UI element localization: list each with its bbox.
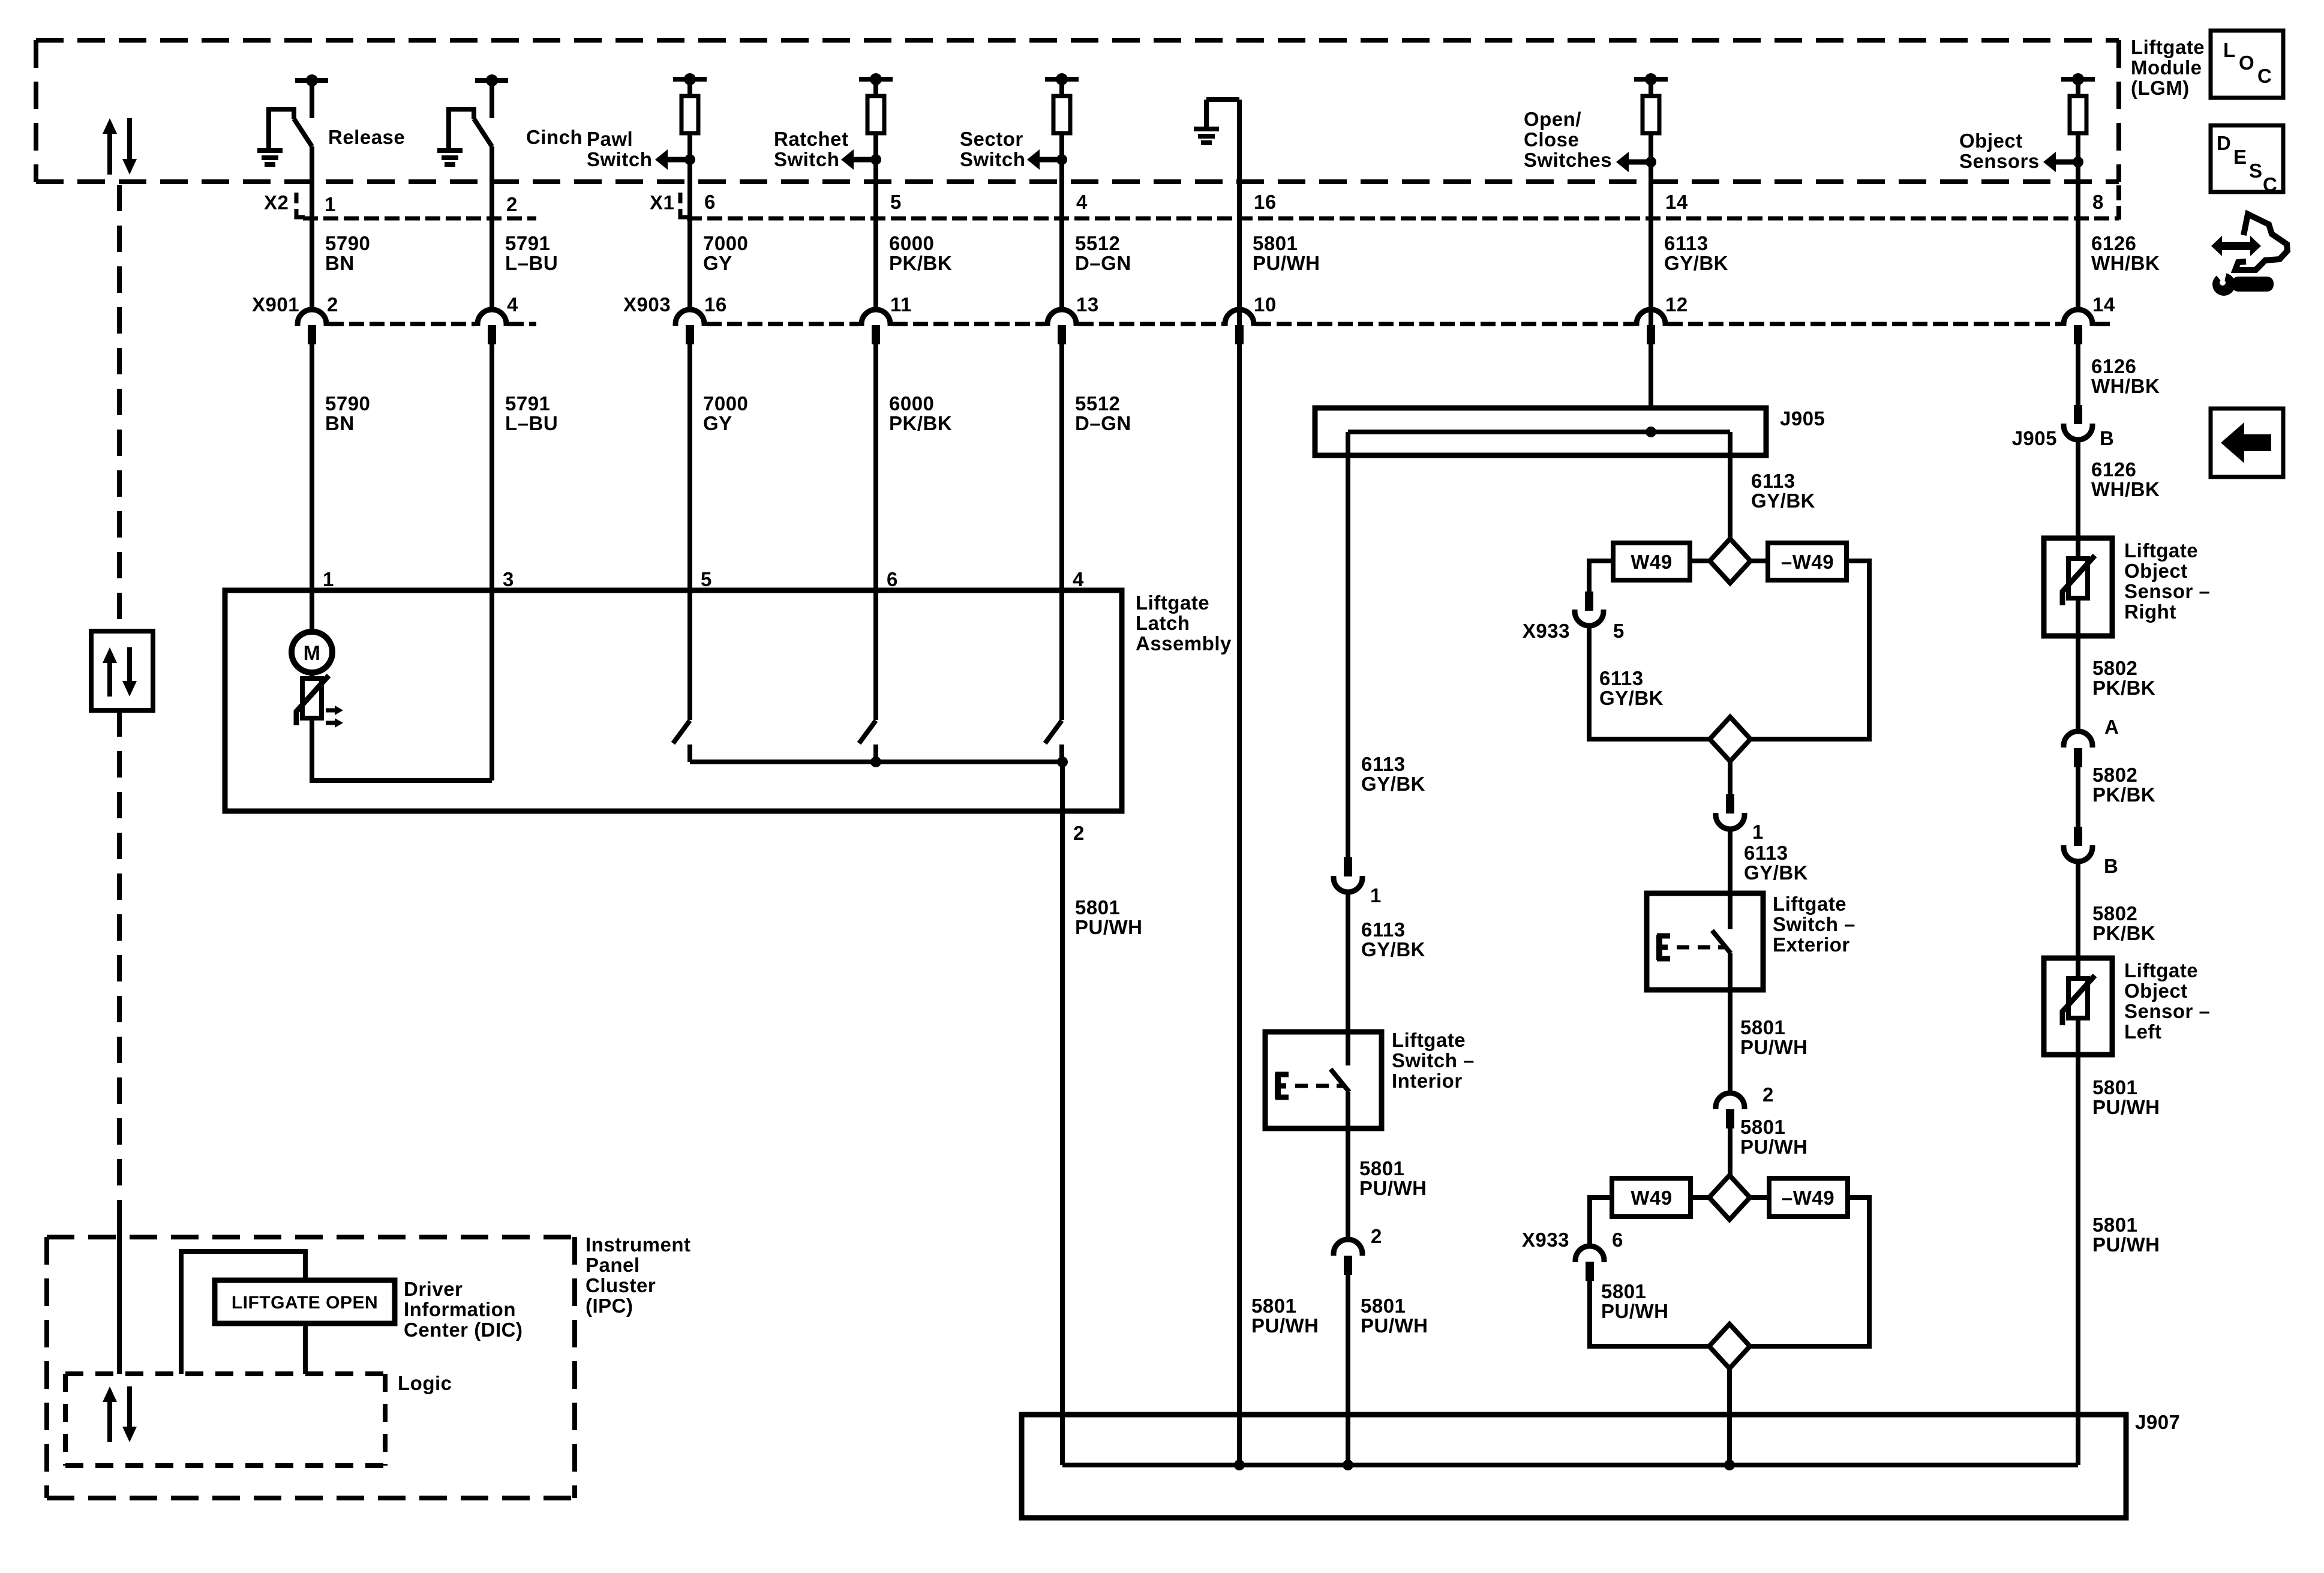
svg-text:6113: 6113 (1599, 667, 1644, 689)
svg-text:L–BU: L–BU (505, 252, 558, 274)
wire label 5801 PU/WH ground branch at J907 (1251, 1295, 1319, 1337)
wire label 6000 PK/BK (889, 232, 952, 274)
wire label 6126 WH/BK below X903 (2091, 355, 2160, 397)
svg-text:WH/BK: WH/BK (2091, 375, 2160, 397)
Cinch switch in LGM (437, 74, 508, 164)
wire label 5801 PU/WH above lower splice (1740, 1116, 1808, 1158)
svg-text:6113: 6113 (1664, 232, 1709, 254)
svg-text:2: 2 (506, 193, 518, 215)
svg-text:5801: 5801 (2092, 1214, 2137, 1236)
svg-text:5790: 5790 (325, 392, 370, 415)
left arrow reference box (2211, 409, 2283, 477)
splice diamond upper W49 bottom (1710, 717, 1750, 761)
ratchet switch contact in latch (859, 721, 876, 762)
svg-text:6126: 6126 (2091, 232, 2136, 254)
wire 5791 L-BU from Cinch switch to X2 pin 2 (490, 146, 494, 310)
latch motor position sensor (variable resistor with optical arrows) (296, 673, 343, 728)
svg-text:Object: Object (2124, 980, 2188, 1002)
svg-text:12: 12 (1665, 293, 1688, 316)
Liftgate Switch - Interior box (1265, 1032, 1382, 1128)
svg-text:PU/WH: PU/WH (1253, 252, 1320, 274)
wire label 5801 PU/WH below exterior switch (1740, 1016, 1808, 1058)
junction dot J907 splice branch (1724, 1460, 1735, 1470)
bidirectional signal box on logic line (91, 631, 153, 710)
Liftgate Module (LGM) label (2131, 36, 2205, 99)
sector switch contact in latch (1045, 721, 1062, 762)
svg-text:C: C (2257, 65, 2272, 87)
svg-text:1: 1 (1752, 821, 1764, 843)
svg-text:7000: 7000 (703, 232, 748, 254)
wire into exterior switch (1728, 828, 1733, 929)
splice diamond lower W49 bottom (1709, 1324, 1750, 1368)
Open/Close Switches pull-up resistor in LGM (1634, 73, 1668, 408)
svg-text:E: E (2233, 146, 2247, 168)
wire 5801 PU/WH left sensor to J907 (2076, 1018, 2080, 1465)
connector X2 label and bracket (264, 191, 305, 217)
Instrument Panel Cluster (IPC) label (585, 1233, 691, 1317)
wire 6126 WH/BK to right object sensor (2076, 439, 2080, 559)
svg-text:5801: 5801 (1075, 896, 1120, 918)
Pawl Switch pull-up resistor in LGM (673, 73, 707, 310)
svg-text:Sensor –: Sensor – (2124, 1000, 2210, 1022)
Logic dashed box (65, 1374, 385, 1466)
wire lower splice to J907 (1727, 1368, 1732, 1465)
splice pack J905 (1315, 408, 1766, 455)
svg-text:5790: 5790 (325, 232, 370, 254)
wire label 5801 PU/WH in lower loop (1601, 1280, 1669, 1322)
svg-text:Cinch: Cinch (526, 126, 582, 148)
wire label 6126 WH/BK (2091, 232, 2160, 274)
svg-text:5: 5 (890, 191, 902, 213)
svg-text:5801: 5801 (1253, 232, 1298, 254)
svg-text:PK/BK: PK/BK (2092, 677, 2155, 699)
svg-text:10: 10 (1254, 293, 1277, 316)
wire label 5802 PK/BK above left sensor (2092, 902, 2155, 944)
LGM X1 right bracket (2116, 185, 2121, 220)
svg-text:6126: 6126 (2091, 355, 2136, 377)
latch switches common wire (690, 757, 1068, 767)
svg-text:Switches: Switches (1524, 149, 1612, 171)
svg-text:16: 16 (1254, 191, 1277, 213)
wire 5802 PK/BK between sensor connectors (2076, 767, 2080, 827)
svg-text:5802: 5802 (2092, 764, 2137, 786)
wire Driver Information Center to Logic (303, 1323, 308, 1374)
wire label 6113 GY/BK above exterior switch (1744, 842, 1808, 884)
wire label 5801 PU/WH (1253, 232, 1320, 274)
svg-text:5801: 5801 (1251, 1295, 1296, 1317)
Liftgate Switch - Exterior label (1773, 893, 1855, 956)
connector X2 dotted line (303, 217, 536, 221)
svg-text:C: C (2263, 173, 2277, 196)
svg-text:6113: 6113 (1361, 918, 1406, 941)
wire into interior switch (1346, 891, 1350, 1065)
wire label 5512 D-GN (1075, 232, 1131, 274)
svg-text:GY/BK: GY/BK (1361, 938, 1425, 960)
svg-text:(LGM): (LGM) (2131, 77, 2190, 99)
wire label 5801 PU/WH latch output (1075, 896, 1143, 938)
svg-text:6000: 6000 (889, 392, 934, 415)
inline connector pin 2 interior branch (1334, 1225, 1382, 1275)
svg-text:5801: 5801 (1740, 1116, 1785, 1138)
Liftgate Switch - Exterior box (1647, 893, 1763, 990)
wire -W49 right side lower loop (1750, 1197, 1869, 1346)
wire 5801 PU/WH from LGM ground pin 16 down to J907 (1237, 100, 1242, 1465)
wire X933-6 to lower diamond lower loop (1590, 1281, 1709, 1346)
wire label 5790 BN lower (325, 392, 370, 434)
wire label 5791 L-BU (505, 232, 558, 274)
svg-text:6126: 6126 (2091, 458, 2136, 481)
LOC reference box (2211, 31, 2283, 98)
wire Logic to Driver Information Center (181, 1251, 305, 1374)
svg-text:2: 2 (1073, 822, 1085, 844)
svg-text:PU/WH: PU/WH (1361, 1314, 1428, 1337)
svg-text:X1: X1 (650, 191, 674, 214)
wire 6000 PK/BK to Liftgate Latch Assembly pin 6 (873, 344, 878, 720)
Liftgate Object Sensor - Right label (2124, 539, 2210, 623)
inline connector pin 2 exterior branch (1716, 1083, 1774, 1128)
Object Sensors pull-up resistor in LGM (2061, 73, 2095, 310)
svg-text:WH/BK: WH/BK (2091, 478, 2160, 500)
svg-text:Switch –: Switch – (1773, 913, 1855, 935)
wire 6126 WH/BK X903 to J905 inline (2076, 344, 2080, 405)
wire label 5791 L-BU lower (505, 392, 558, 434)
wire 5801 PU/WH from exterior switch (1728, 953, 1733, 1093)
svg-text:6: 6 (887, 568, 898, 590)
svg-text:Switch: Switch (774, 148, 839, 170)
inline connector pin 1 exterior branch (1716, 794, 1764, 843)
svg-text:Sector: Sector (960, 128, 1023, 150)
wire diamond to -W49 lower (1750, 1195, 1769, 1200)
Liftgate Object Sensor - Left label (2124, 959, 2210, 1043)
svg-text:5512: 5512 (1075, 392, 1120, 415)
Object Sensors label with arrow (1959, 130, 2083, 172)
svg-text:Pawl: Pawl (587, 128, 633, 150)
wire diamond to inline connector 1 (1728, 761, 1733, 794)
wire label 7000 GY lower (703, 392, 748, 434)
wire W49 to X933 pin 5 (1589, 561, 1613, 592)
wire diamond to -W49 upper (1750, 559, 1768, 563)
svg-text:Center (DIC): Center (DIC) (404, 1319, 523, 1341)
wire 5791 L-BU to Liftgate Latch Assembly pin 3 (490, 344, 494, 781)
svg-text:6000: 6000 (889, 232, 934, 254)
svg-text:1: 1 (323, 568, 334, 590)
svg-text:–W49: –W49 (1781, 551, 1834, 573)
svg-text:GY: GY (703, 412, 732, 434)
svg-text:Liftgate: Liftgate (2131, 36, 2205, 58)
wire label 6126 WH/BK above right sensor (2091, 458, 2160, 500)
svg-text:–W49: –W49 (1782, 1187, 1834, 1209)
svg-text:Liftgate: Liftgate (2124, 539, 2198, 562)
Liftgate Object Sensor - Right box (2044, 538, 2112, 636)
svg-text:X2: X2 (264, 191, 289, 214)
svg-text:Liftgate: Liftgate (1392, 1029, 1466, 1051)
connector X901 terminal pin 4 (478, 293, 518, 344)
connector X1 label and bracket (650, 191, 689, 217)
svg-text:Right: Right (2124, 601, 2176, 623)
svg-text:GY: GY (703, 252, 732, 274)
splice -W49 box lower (1769, 1178, 1848, 1217)
Driver Information Center (DIC) label (404, 1278, 523, 1341)
connector X901 terminal pin 2 (298, 293, 338, 344)
svg-text:Sensor –: Sensor – (2124, 580, 2210, 602)
svg-text:5791: 5791 (505, 232, 550, 254)
connector X903 terminal pin 11 (861, 293, 912, 344)
svg-text:L–BU: L–BU (505, 412, 558, 434)
svg-text:J905: J905 (1780, 407, 1825, 430)
interior switch symbol E with dashes and contact (1275, 1069, 1349, 1098)
svg-text:PU/WH: PU/WH (1740, 1136, 1808, 1158)
svg-text:W49: W49 (1631, 551, 1672, 573)
svg-text:Exterior: Exterior (1773, 933, 1850, 956)
wire label 6113 GY/BK (1664, 232, 1728, 274)
svg-text:6113: 6113 (1744, 842, 1788, 864)
svg-text:14: 14 (1665, 191, 1688, 213)
svg-text:16: 16 (704, 293, 727, 316)
splice diamond upper W49 top (1710, 539, 1750, 583)
svg-text:2: 2 (1371, 1225, 1382, 1247)
DESC reference box (2211, 125, 2283, 196)
svg-text:5801: 5801 (1601, 1280, 1646, 1302)
svg-text:LIFTGATE OPEN: LIFTGATE OPEN (232, 1293, 378, 1313)
wire diamond to W49 upper (1690, 559, 1710, 563)
wire 5802 PK/BK to left object sensor (2076, 860, 2080, 978)
wire 5801 PU/WH interior branch to J907 (1346, 1275, 1350, 1465)
wire label 5801 PU/WH below interior switch (1359, 1157, 1427, 1199)
wire label 5802 PK/BK middle (2092, 764, 2155, 806)
connector X933 pin 6 (1522, 1229, 1623, 1281)
svg-text:Left: Left (2124, 1020, 2162, 1043)
Liftgate Latch Assembly label (1136, 592, 1232, 655)
Open/Close Switches label with arrow (1524, 108, 1656, 172)
wire label 7000 GY (703, 232, 748, 274)
Liftgate Module (LGM) dashed box (36, 40, 2119, 182)
svg-text:PK/BK: PK/BK (2092, 922, 2155, 944)
svg-text:Open/: Open/ (1524, 108, 1581, 130)
svg-text:Information: Information (404, 1298, 516, 1320)
Pawl Switch label with arrow (587, 128, 695, 170)
svg-text:GY/BK: GY/BK (1744, 861, 1808, 884)
connector X1 dotted line (687, 217, 2119, 221)
svg-text:B: B (2100, 427, 2114, 449)
wire 5790 BN to Liftgate Latch Assembly pin 1 (310, 344, 314, 632)
svg-text:PU/WH: PU/WH (1075, 916, 1143, 938)
svg-text:Object: Object (1959, 130, 2023, 152)
Liftgate Switch - Interior label (1392, 1029, 1475, 1092)
exterior switch symbol E with dashes and contact (1657, 930, 1731, 960)
Liftgate Latch Assembly box (225, 590, 1122, 811)
ground symbol inside LGM (pin 16 return) (1194, 100, 1239, 143)
pawl switch contact in latch (673, 721, 690, 762)
svg-text:8: 8 (2092, 191, 2104, 213)
svg-text:Assembly: Assembly (1136, 632, 1232, 655)
svg-text:4: 4 (1073, 568, 1084, 590)
svg-text:BN: BN (325, 252, 355, 274)
svg-text:6113: 6113 (1751, 470, 1795, 492)
Release switch in LGM (257, 74, 328, 164)
svg-text:GY/BK: GY/BK (1361, 773, 1425, 795)
Liftgate Object Sensor - Left box (2044, 958, 2112, 1055)
connector X903 terminal pin 12 (1637, 293, 1688, 344)
svg-text:X901: X901 (252, 293, 299, 316)
svg-text:5512: 5512 (1075, 232, 1120, 254)
svg-text:Module: Module (2131, 56, 2202, 79)
svg-text:Switch –: Switch – (1392, 1049, 1475, 1071)
latch motor M (292, 632, 332, 673)
svg-text:Object: Object (2124, 560, 2188, 582)
svg-text:Sensors: Sensors (1959, 150, 2040, 172)
svg-text:Cluster: Cluster (585, 1274, 656, 1296)
splice pack J907 (1022, 1415, 2126, 1518)
svg-text:PU/WH: PU/WH (1359, 1177, 1427, 1199)
wire W49 to X933 pin 6 (1590, 1197, 1612, 1246)
svg-text:13: 13 (1076, 293, 1099, 316)
svg-text:Liftgate: Liftgate (2124, 959, 2198, 981)
svg-text:BN: BN (325, 412, 355, 434)
svg-text:1: 1 (325, 193, 336, 215)
inline connector pin B sensors (2064, 827, 2118, 877)
svg-text:PU/WH: PU/WH (1251, 1314, 1319, 1337)
LIFTGATE OPEN display box (215, 1280, 395, 1323)
inline connector pin A sensors (2064, 716, 2119, 767)
wire label 6113 GY/BK above interior switch (1361, 918, 1425, 960)
svg-text:GY/BK: GY/BK (1751, 490, 1815, 512)
svg-text:GY/BK: GY/BK (1664, 252, 1728, 274)
svg-text:Latch: Latch (1136, 612, 1190, 634)
svg-text:Liftgate: Liftgate (1136, 592, 1209, 614)
wire label 6113 GY/BK above interior connector (1361, 753, 1425, 795)
bidirectional signal arrows inside LGM (103, 118, 137, 175)
wire label 6113 GY/BK below J905 (1751, 470, 1815, 512)
svg-text:D: D (2217, 132, 2231, 154)
svg-text:11: 11 (890, 293, 912, 316)
svg-text:(IPC): (IPC) (585, 1295, 633, 1317)
wire label 5802 PK/BK below right sensor (2092, 657, 2155, 699)
Ratchet Switch pull-up resistor in LGM (859, 73, 893, 310)
svg-text:6: 6 (1612, 1229, 1623, 1251)
wire 5801 PU/WH from latch pin 2 down to J907 (1060, 762, 1065, 1465)
wire diamond to W49 lower (1691, 1195, 1709, 1200)
svg-text:Switch: Switch (587, 148, 652, 170)
svg-text:L: L (2223, 39, 2236, 61)
Instrument Panel Cluster (IPC) dashed box (47, 1237, 575, 1498)
wire label 5801 PU/WH interior at J907 (1361, 1295, 1428, 1337)
wire 5790 BN from Release switch to X2 pin 1 (310, 146, 314, 310)
svg-text:Logic: Logic (398, 1372, 452, 1394)
Sector Switch label with arrow (960, 128, 1067, 170)
dashed logic line from LGM to IPC (117, 185, 122, 1374)
svg-text:Liftgate: Liftgate (1773, 893, 1846, 915)
wire label 5801 PU/WH sensors at J907 (2092, 1214, 2160, 1256)
svg-text:M: M (304, 642, 321, 665)
svg-text:X933: X933 (1522, 1229, 1569, 1251)
svg-text:7000: 7000 (703, 392, 748, 415)
svg-text:X903: X903 (623, 293, 671, 316)
svg-text:A: A (2104, 716, 2119, 738)
connector X903 terminal pin 13 (1047, 293, 1099, 344)
svg-text:Release: Release (328, 126, 405, 148)
svg-text:X933: X933 (1523, 620, 1570, 642)
svg-text:S: S (2249, 160, 2263, 182)
svg-text:5: 5 (1613, 620, 1625, 642)
wire 5802 PK/BK from right sensor (2076, 598, 2080, 731)
svg-text:4: 4 (1076, 191, 1088, 213)
svg-text:Instrument: Instrument (585, 1233, 691, 1256)
svg-text:J907: J907 (2135, 1411, 2180, 1433)
svg-text:2: 2 (327, 293, 338, 316)
connector X933 pin 5 (1523, 592, 1625, 642)
wire 6113 GY/BK J905 to exterior switch branch (1728, 432, 1733, 539)
svg-text:14: 14 (2092, 293, 2115, 316)
svg-text:PU/WH: PU/WH (1601, 1300, 1669, 1322)
svg-text:D–GN: D–GN (1075, 252, 1131, 274)
svg-text:Close: Close (1524, 128, 1579, 151)
wire 5801 PU/WH from interior switch (1346, 1092, 1350, 1239)
svg-text:Ratchet: Ratchet (774, 128, 849, 150)
svg-text:GY/BK: GY/BK (1599, 687, 1664, 709)
svg-text:O: O (2239, 52, 2254, 74)
connector X903 terminal pin 14 (2064, 293, 2115, 344)
liftgate adjust icon with double arrow and wrench (2211, 214, 2287, 296)
wire exterior branch to lower W49 splice (1728, 1128, 1733, 1175)
wire -W49 right side upper loop (1750, 561, 1869, 739)
inline connector pin 1 interior branch (1334, 857, 1382, 906)
connector X903 terminal pin 10 (1225, 293, 1277, 344)
svg-text:4: 4 (507, 293, 518, 316)
junction dot J905 (1646, 427, 1656, 437)
wire label 6000 PK/BK lower (889, 392, 952, 434)
svg-text:Driver: Driver (404, 1278, 463, 1300)
svg-text:WH/BK: WH/BK (2091, 252, 2160, 274)
bidirectional signal arrows inside Logic (103, 1386, 137, 1442)
svg-text:5802: 5802 (2092, 657, 2137, 679)
junction dot J907 ground branch (1234, 1460, 1245, 1470)
connector X903 dotted line (707, 322, 2112, 326)
inline connector J905 pin B (2012, 405, 2115, 449)
svg-text:3: 3 (503, 568, 514, 590)
svg-text:2: 2 (1762, 1083, 1774, 1106)
wire X933-5 to lower diamond upper loop (1589, 625, 1710, 739)
svg-text:5: 5 (701, 568, 712, 590)
svg-text:PU/WH: PU/WH (1740, 1036, 1808, 1058)
svg-text:D–GN: D–GN (1075, 412, 1131, 434)
svg-text:5802: 5802 (2092, 902, 2137, 924)
svg-text:PK/BK: PK/BK (889, 252, 952, 274)
svg-text:W49: W49 (1631, 1187, 1672, 1209)
svg-text:5801: 5801 (1359, 1157, 1404, 1179)
splice W49 box upper (1613, 543, 1690, 580)
wire label 6113 GY/BK in loop (1599, 667, 1664, 709)
wire 7000 GY to Liftgate Latch Assembly pin 5 (687, 344, 692, 720)
svg-text:PU/WH: PU/WH (2092, 1233, 2160, 1256)
splice diamond lower W49 top (1709, 1175, 1750, 1220)
wire 5512 D-GN to Liftgate Latch Assembly pin 4 (1059, 344, 1064, 720)
svg-text:PK/BK: PK/BK (889, 412, 952, 434)
svg-text:Panel: Panel (585, 1254, 640, 1276)
svg-text:1: 1 (1370, 884, 1382, 906)
svg-text:Switch: Switch (960, 148, 1025, 170)
svg-text:PU/WH: PU/WH (2092, 1096, 2160, 1118)
svg-text:5791: 5791 (505, 392, 550, 415)
wire label 5790 BN (325, 232, 370, 274)
svg-text:J905: J905 (2012, 427, 2057, 449)
wire 6113 GY/BK J905 to interior switch branch (1346, 432, 1350, 857)
svg-text:5801: 5801 (1740, 1016, 1785, 1038)
connector X901 dotted line (329, 322, 536, 326)
splice -W49 box upper (1768, 543, 1846, 580)
splice W49 box lower (1612, 1178, 1691, 1217)
junction dot J907 interior branch (1343, 1460, 1353, 1470)
svg-text:Interior: Interior (1392, 1070, 1463, 1092)
